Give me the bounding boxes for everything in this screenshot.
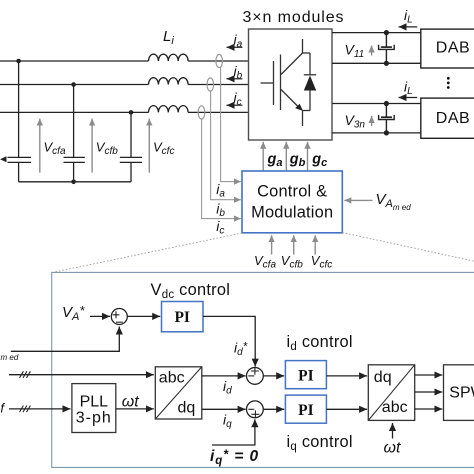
- svg-text:DAB: DAB: [436, 40, 470, 57]
- DAB box n: [421, 98, 474, 138]
- wire iq to sum3: [202, 408, 246, 410]
- svg-text:PI: PI: [174, 309, 190, 326]
- arrow ia: [227, 46, 243, 48]
- wire dc link n top: [332, 103, 421, 105]
- sign plus S3: [251, 410, 259, 418]
- svg-text:3-ph: 3-ph: [76, 410, 112, 427]
- arrow iL n: [399, 97, 418, 99]
- emitter arrowhead: [295, 104, 303, 111]
- current sensor a: [216, 54, 223, 67]
- sign plus S2: [251, 367, 259, 375]
- PI box dc: [162, 302, 204, 332]
- dq/abc diagonal: [368, 365, 414, 421]
- wire phase c: [0, 111, 149, 113]
- wire dq out 3: [415, 408, 443, 410]
- PI box d: [285, 361, 326, 389]
- sense wire ib: [211, 91, 241, 200]
- wire phase c right: [188, 111, 248, 113]
- svg-text:dq: dq: [374, 369, 392, 386]
- arrow gc: [307, 142, 309, 171]
- node phase b junction: [71, 82, 76, 87]
- wire phase a: [0, 60, 149, 62]
- svg-text:PLL: PLL: [80, 394, 109, 411]
- hatch vabc: [20, 406, 31, 413]
- arrow vcfa ctrl: [271, 235, 273, 254]
- sign minus S2: [248, 375, 254, 377]
- inductor Lb: [149, 78, 189, 85]
- arrow V11: [371, 46, 373, 56]
- sense wire ia: [221, 68, 241, 182]
- summing junction S2: [247, 368, 264, 385]
- wire iq* = 0: [212, 419, 255, 445]
- diode D1: [304, 53, 316, 111]
- dotted zoom line right: [342, 233, 474, 267]
- arrow gb: [285, 142, 287, 171]
- summing junction S1: [111, 309, 127, 325]
- sign minus S1: [116, 321, 123, 323]
- DAB box 1: [421, 29, 474, 68]
- node dcn top: [384, 101, 389, 106]
- capacitor C11: [379, 33, 395, 64]
- wire bottom bus: [19, 181, 131, 183]
- inductor Lc: [149, 106, 189, 113]
- node dcn bottom: [384, 130, 389, 135]
- svg-text:ωt: ωt: [122, 393, 139, 410]
- vertical ellipsis: [447, 77, 450, 80]
- capacitor Cfb: [64, 85, 85, 182]
- arrow ga: [262, 142, 264, 171]
- abc/dq box: [155, 367, 202, 419]
- transistor Q1 (IGBT): [261, 39, 311, 126]
- summing junction S3: [247, 401, 264, 418]
- dotted zoom line left: [56, 233, 243, 272]
- SPWM box: [444, 365, 474, 421]
- wire dc link n bottom: [332, 132, 421, 134]
- arrow iL 1: [399, 26, 418, 28]
- sign minus S3: [248, 408, 254, 410]
- current sensor c: [198, 106, 205, 119]
- wire PIq to dq: [326, 408, 367, 410]
- arrow V3n: [371, 116, 373, 126]
- wire VAmed feedback: [11, 327, 120, 352]
- wire dc link 1 bottom: [332, 62, 421, 64]
- converter module box: [249, 29, 333, 140]
- wire sum1 to PIdc: [127, 315, 160, 317]
- wire vabc input to PLL: [9, 408, 71, 410]
- arrow ib: [227, 78, 243, 80]
- node bottom bus junction: [71, 180, 76, 185]
- svg-text:DAB: DAB: [436, 110, 470, 127]
- svg-text:PI: PI: [298, 402, 314, 419]
- wire dq out 2: [415, 391, 443, 393]
- arrow vcfb ctrl: [293, 235, 295, 254]
- detail box: [52, 272, 474, 467]
- arrow vcfc ctrl: [314, 235, 316, 254]
- sense wire ic: [202, 119, 241, 219]
- wire dc link 1 top: [332, 32, 421, 34]
- wire iabc input: [9, 374, 154, 376]
- arrow vcfa: [39, 119, 41, 173]
- node phase a junction: [16, 59, 21, 64]
- PI box q: [285, 395, 326, 423]
- current sensor b: [207, 78, 214, 91]
- hatch iabc: [20, 371, 31, 378]
- capacitor C3n: [379, 104, 395, 133]
- abc/dq diagonal: [155, 367, 202, 419]
- svg-text:abc: abc: [159, 370, 185, 387]
- svg-text:dq: dq: [178, 400, 196, 417]
- arrow ic: [227, 104, 243, 106]
- arrow vcfc: [148, 119, 150, 173]
- wire PIdc to sum2: [203, 316, 255, 366]
- svg-text:m ed: m ed: [1, 353, 19, 362]
- wire PId to dq: [326, 375, 367, 377]
- wire dq out 1: [415, 374, 443, 376]
- svg-text:3×n modules: 3×n modules: [243, 9, 345, 26]
- control and modulation box: [242, 171, 342, 233]
- svg-text:iq control: iq control: [287, 433, 353, 453]
- wire phase b: [0, 84, 149, 86]
- node dc1 bottom: [384, 61, 389, 66]
- capacitor Cfa: [8, 61, 32, 182]
- svg-text:Modulation: Modulation: [251, 204, 333, 222]
- svg-text:abc: abc: [382, 399, 408, 416]
- PLL box: [72, 384, 116, 433]
- Cf label arrow fragment: [0, 156, 7, 162]
- wire id to sum2: [202, 375, 246, 377]
- arrow wt into dqabc: [392, 423, 394, 439]
- capacitor Cfc: [120, 112, 142, 181]
- node dc1 top: [384, 30, 389, 35]
- svg-text:id control: id control: [287, 333, 353, 353]
- dq/abc box: [368, 365, 414, 421]
- arrow vcfb: [91, 119, 93, 173]
- wire sum2 to PId: [263, 375, 284, 377]
- wire VA* to sum1: [90, 315, 110, 317]
- wire wt PLL to abc: [116, 408, 154, 410]
- wire phase a right: [188, 60, 248, 62]
- sign plus S1: [113, 311, 120, 318]
- node phase c junction: [129, 110, 134, 115]
- svg-text:PI: PI: [298, 367, 314, 384]
- svg-text:ωt: ωt: [384, 440, 401, 457]
- svg-text:SPWM: SPWM: [449, 385, 474, 402]
- wire sum3 to PIq: [263, 408, 284, 410]
- arrow VAmed: [344, 199, 372, 201]
- svg-text:Control &: Control &: [257, 182, 327, 200]
- wire phase b right: [188, 84, 248, 86]
- inductor La: [149, 54, 189, 61]
